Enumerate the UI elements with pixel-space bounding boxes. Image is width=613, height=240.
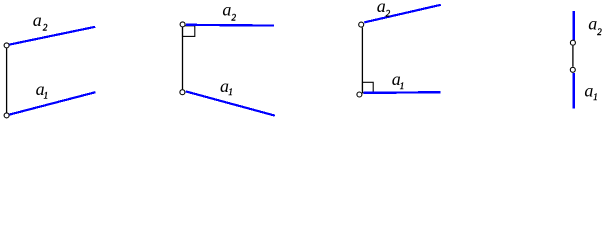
svg-text:1: 1 [593,92,598,102]
svg-text:a: a [33,10,42,30]
node endpoint circle top fig1 [4,43,9,48]
line a1 (fig1, blue) [9,92,95,114]
line a1 (fig3, blue horizontal) [364,91,441,94]
wire vertical connector fig3 [361,27,363,91]
node endpoint circle bottom fig1 [4,113,9,118]
svg-text:a: a [588,13,597,33]
svg-text:2: 2 [232,13,237,23]
node endpoint circle bottom fig4 [570,67,575,72]
node endpoint circle top fig2 [180,22,185,27]
svg-text:2: 2 [597,27,602,37]
right-angle mark fig2 [183,26,195,37]
svg-text:1: 1 [400,81,405,91]
svg-text:2: 2 [386,8,391,18]
svg-text:a: a [584,80,593,100]
line a2 (fig1, blue) [9,27,95,45]
node endpoint circle bottom fig2 [180,90,185,95]
wire vertical connector fig1 [6,48,8,112]
right-angle mark fig3 [363,82,374,93]
svg-text:a: a [377,0,386,16]
line a2 (fig2, blue horizontal) [186,24,274,27]
wire vertical connector fig2 [182,27,184,89]
node endpoint circle bottom fig3 [357,92,362,97]
svg-text:2: 2 [43,23,48,33]
svg-text:a: a [222,0,231,20]
line a1 (fig2, blue) [186,91,275,115]
line a2 (fig4, blue vertical) [573,11,575,40]
node endpoint circle top fig4 [570,40,575,45]
line a2 (fig3, blue) [364,5,441,23]
wire vertical connector fig4 [572,46,574,67]
svg-text:1: 1 [44,90,49,100]
svg-text:1: 1 [228,87,233,97]
node endpoint circle top fig3 [359,22,364,27]
line a1 (fig4, blue vertical) [573,73,575,109]
